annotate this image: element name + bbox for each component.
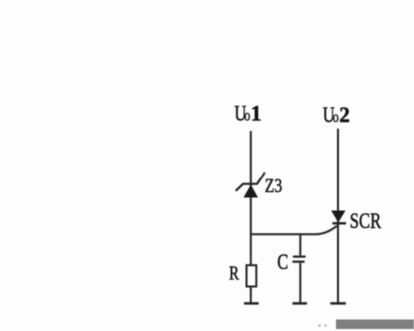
svg-text:SCR: SCR [350,210,381,234]
svg-text:2: 2 [339,102,350,127]
svg-text:o: o [333,109,339,127]
svg-text:o: o [244,107,250,125]
svg-text:R: R [229,261,239,284]
svg-text:Z3: Z3 [265,174,283,197]
svg-text:C: C [277,251,288,275]
svg-text:1: 1 [251,101,262,126]
